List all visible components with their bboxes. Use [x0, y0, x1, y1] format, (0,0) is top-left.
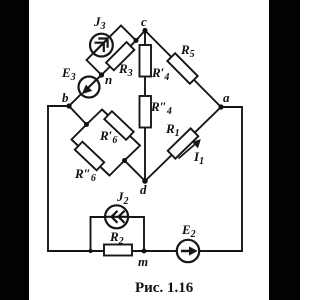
node c — [142, 28, 147, 33]
left black bar — [0, 0, 29, 300]
wire n to J3 rail corner — [87, 60, 102, 75]
node n — [99, 72, 104, 77]
node b — [66, 103, 71, 108]
node m — [142, 249, 147, 254]
wire R3 rail: n to junction to c — [102, 31, 146, 76]
svg-text:a: a — [223, 90, 230, 105]
svg-text:b: b — [62, 90, 69, 105]
resistor R1 — [168, 128, 199, 158]
svg-text:d: d — [140, 182, 147, 197]
resistor R'6 — [104, 111, 133, 140]
resistor R5 — [167, 53, 197, 83]
svg-text:n: n — [105, 72, 112, 87]
wire d to a diagonal (R1 branch) — [145, 107, 221, 181]
current arrow I1 — [179, 140, 201, 159]
wire lower rail R''6 — [72, 140, 110, 176]
node d — [142, 178, 148, 184]
wire A2 to junction near c — [121, 26, 136, 41]
junction west of R6 group — [84, 122, 89, 127]
node dots — [66, 28, 223, 254]
junction left riser bottom — [89, 249, 93, 253]
svg-text:m: m — [138, 254, 148, 269]
resistor R2 — [104, 245, 132, 256]
wire R'4 to R''4 — [144, 77, 146, 97]
resistor R''4 — [140, 96, 152, 128]
svg-text:Рис. 1.16: Рис. 1.16 — [135, 280, 194, 296]
wire c down to R'4 — [144, 31, 146, 46]
wire c to a diagonal (R5 branch) — [145, 31, 221, 108]
svg-text:c: c — [141, 14, 147, 29]
wire E2 right to corner up to node a — [199, 107, 242, 251]
emf source E2 — [177, 240, 199, 262]
wire J2 circle right to right riser down to m — [128, 217, 144, 251]
node a — [218, 104, 223, 109]
wire R''4 down to d — [144, 128, 146, 182]
wire east cross connector U2-E-L2 — [110, 146, 141, 176]
wire east junction to d — [125, 161, 146, 182]
current source J3 — [90, 34, 113, 57]
emf source E3 — [79, 77, 100, 98]
wire E3 circle to node n — [97, 75, 102, 80]
wire R2 to m to E2 — [132, 250, 177, 252]
right black bar — [269, 0, 300, 300]
junction near c — [134, 38, 139, 43]
wire J3 rail upper segment to corner A2 — [109, 26, 121, 38]
wire b to west junction of R6 group — [69, 106, 87, 125]
resistor R''6 — [75, 142, 104, 171]
junction east of R6 group — [122, 158, 127, 163]
wire upper rail R'6 — [102, 110, 140, 146]
wire J3 rail lower segment — [87, 53, 94, 60]
resistor R'4 — [140, 45, 152, 77]
wire b to left edge and down (outer left loop) — [48, 106, 91, 251]
resistor R3 — [106, 42, 134, 70]
wire b to E3 circle — [69, 94, 82, 106]
current source J2 — [105, 205, 128, 228]
wire bottom: left riser base to R2 — [91, 250, 105, 252]
wire west cross connector U1-W-L1 — [72, 110, 103, 140]
wire J2 branch left riser and top — [91, 217, 106, 251]
